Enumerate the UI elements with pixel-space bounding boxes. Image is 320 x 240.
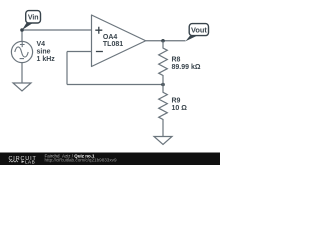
ground (right) [154, 137, 172, 145]
wire inverting input to feedback [67, 51, 92, 53]
resistor R9 [159, 85, 168, 137]
node A junction [20, 28, 24, 32]
svg-text:Vout: Vout [191, 26, 207, 35]
wire node A down to V4 top [21, 30, 23, 42]
value label V4 sine 1kHz [37, 41, 56, 63]
canvas background [0, 0, 220, 165]
wire feedback horizontal to node B [67, 84, 163, 86]
svg-text:LAB: LAB [25, 160, 35, 165]
svg-text:89.99 kΩ: 89.99 kΩ [172, 64, 201, 71]
value label R9 10 Ohm [172, 98, 188, 113]
svg-text:TL081: TL081 [103, 41, 123, 48]
svg-text:http://circuitlab.com/c/q21b98: http://circuitlab.com/c/q21b9833xv9 [45, 157, 117, 162]
watermark bar [0, 153, 220, 166]
svg-text:R8: R8 [172, 57, 181, 64]
ground (left) [13, 83, 31, 91]
resistor R8 [159, 41, 168, 85]
node output junction [161, 39, 165, 43]
svg-text:R9: R9 [172, 98, 181, 105]
net label Vout [186, 24, 209, 42]
svg-text:1 kHz: 1 kHz [37, 56, 56, 63]
voltage source V4 [11, 41, 32, 62]
svg-text:10 Ω: 10 Ω [172, 105, 188, 112]
node B junction [161, 83, 165, 87]
svg-text:sine: sine [37, 49, 51, 56]
wire feedback vertical [66, 52, 68, 85]
op-amp OA4 [92, 15, 146, 67]
svg-text:V4: V4 [37, 41, 46, 48]
net label Vin [22, 11, 41, 30]
wire V4 bottom to ground [21, 63, 23, 83]
value label R8 89.99 kOhm [172, 57, 201, 72]
wire node A to V+ input [22, 29, 92, 31]
svg-text:Vin: Vin [28, 14, 39, 21]
wire op-amp output to Vout [146, 40, 186, 42]
